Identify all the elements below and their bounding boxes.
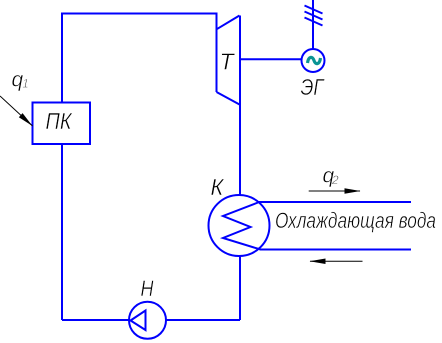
svg-text:К: К (211, 174, 225, 200)
svg-text:2: 2 (331, 173, 339, 187)
svg-text:Н: Н (141, 276, 154, 301)
svg-text:1: 1 (22, 79, 28, 91)
svg-text:Т: Т (220, 49, 236, 75)
svg-text:ПК: ПК (46, 108, 73, 134)
svg-text:Охлаждающая вода: Охлаждающая вода (275, 208, 436, 233)
svg-text:ЭГ: ЭГ (301, 74, 325, 100)
